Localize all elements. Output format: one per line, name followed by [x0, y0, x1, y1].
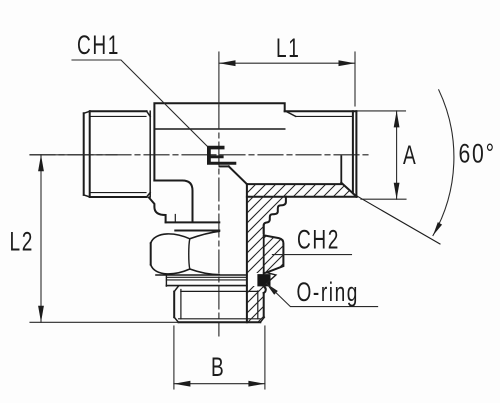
- seat counterbore vertical: [340, 156, 342, 183]
- L1 right arrow: [339, 60, 356, 66]
- B left extension: [173, 326, 175, 389]
- svg-text:CH1: CH1: [77, 30, 120, 60]
- body block outline: [154, 103, 284, 180]
- o-ring cross-section (black): [258, 275, 270, 286]
- B dimension line: [174, 383, 265, 385]
- L2 top arrow: [38, 155, 44, 172]
- dimensions: [30, 52, 454, 389]
- stud wall right edge lower: [264, 286, 266, 293]
- bottom thread crest top line: [181, 290, 258, 292]
- L2 top extension: [30, 154, 117, 156]
- bottom thread left outer: [173, 292, 175, 318]
- right port thread start chamfer: [286, 111, 296, 116]
- moulding steps right of branch: [264, 197, 286, 233]
- branch cone slope: [229, 166, 247, 184]
- L1 extension right: [354, 52, 356, 106]
- L1 extension left (over centerline): [218, 52, 220, 106]
- left port thread root top: [91, 115, 147, 117]
- flange small vertical: [174, 215, 176, 223]
- svg-text:A: A: [403, 140, 417, 170]
- stud wall right edge thread: [263, 293, 265, 317]
- left port thread root bottom: [91, 192, 147, 194]
- left port groove vertical: [149, 111, 151, 197]
- svg-text:60°: 60°: [459, 139, 496, 169]
- hatching: [60, 155, 455, 340]
- bottom thread bottom chamfer right: [260, 317, 264, 322]
- B left arrow: [174, 381, 191, 387]
- B right extension: [264, 326, 266, 389]
- flange top contact line: [166, 221, 220, 223]
- arc end arrow: [433, 222, 442, 235]
- left port end bevel bottom: [84, 195, 90, 197]
- nut top face line: [175, 230, 219, 232]
- leaders: [72, 60, 378, 307]
- seat cone diagonal: [341, 183, 356, 197]
- svg-text:CH2: CH2: [297, 224, 340, 254]
- right port thread root top: [296, 115, 353, 117]
- L1 left arrow: [219, 60, 236, 66]
- left port thread end chamfer top: [147, 111, 151, 116]
- center lines: [30, 106, 370, 336]
- body mid line upper: [154, 128, 284, 130]
- cone extension sloped line: [356, 196, 440, 244]
- nut section piece outline: [264, 235, 284, 273]
- A top arrow: [394, 111, 400, 128]
- nut left edge: [150, 243, 152, 264]
- svg-text:L2: L2: [10, 226, 34, 256]
- right port end face outer: [355, 111, 357, 197]
- A bottom arrow: [394, 183, 400, 200]
- seat band top edge: [247, 183, 341, 185]
- left port bottom edge: [90, 196, 147, 198]
- washer line 2: [166, 279, 247, 281]
- O-ring leader: [267, 284, 378, 307]
- nut bottom face line: [156, 274, 247, 276]
- right port bottom edge: [247, 196, 357, 198]
- left port top edge: [90, 110, 147, 112]
- B right arrow: [248, 381, 265, 387]
- A dimension line: [396, 111, 398, 199]
- washer line 1: [166, 276, 247, 278]
- CH1 underline and leader: [72, 60, 208, 147]
- left port end bevel top: [84, 111, 90, 113]
- branch cone flat: [220, 165, 229, 167]
- left port end chamfer line: [89, 111, 91, 197]
- left port end face outer: [83, 113, 85, 195]
- body underside left: [154, 181, 192, 222]
- bottom face chamfer inner line: [179, 318, 261, 320]
- bottom thread right root: [257, 291, 259, 319]
- bottom thread top chamfer: [174, 286, 178, 291]
- stud wall left edge: [246, 184, 248, 322]
- washer left edge: [165, 275, 167, 286]
- L2 dimension line: [40, 155, 42, 322]
- bottom face: [179, 321, 261, 323]
- stud wall right edge upper: [263, 225, 265, 273]
- o-ring leader arrow: [266, 283, 278, 295]
- A bottom extension: [361, 198, 406, 200]
- nut facet line: [189, 239, 190, 269]
- vertical branch centerline: [218, 106, 220, 336]
- wrench-flats symbol CH1: [207, 146, 236, 165]
- nut section right lower edge: [263, 273, 265, 274]
- svg-text:B: B: [211, 352, 225, 382]
- svg-text:O-ring: O-ring: [297, 277, 359, 307]
- arrowheads: [38, 60, 442, 386]
- nut bottom chamfer arcs: [151, 265, 220, 275]
- svg-text:L1: L1: [276, 33, 300, 63]
- right port top edge: [285, 110, 357, 112]
- bottom thread left root: [180, 290, 182, 319]
- A top extension: [358, 110, 406, 112]
- CH2 leader line: [272, 254, 351, 256]
- L1 dimension line: [219, 62, 355, 64]
- right port end chamfer line: [352, 111, 354, 193]
- washer bottom line: [166, 285, 247, 287]
- left port thread end chamfer bottom: [147, 193, 151, 197]
- o-ring groove notch outline: [264, 273, 276, 286]
- L2 bottom arrow: [38, 306, 44, 323]
- nut top chamfer arcs: [151, 231, 220, 243]
- 60 degree arc: [433, 90, 454, 236]
- horizontal centerline: [30, 154, 370, 156]
- L2 bottom extension: [30, 321, 179, 323]
- bottom thread bottom chamfer left: [174, 317, 178, 322]
- left step under port: [149, 198, 166, 223]
